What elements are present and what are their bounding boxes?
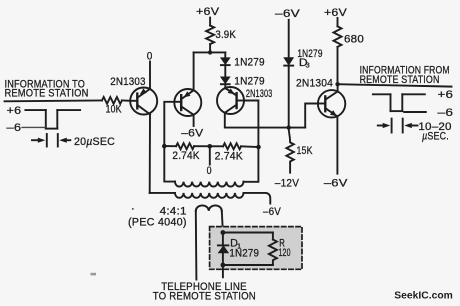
resistor 680	[334, 26, 342, 47]
diode D1 1N279	[218, 233, 229, 266]
node clamp junction dot	[287, 125, 291, 129]
svg-text:15K: 15K	[297, 145, 313, 157]
svg-text:2N1303: 2N1303	[246, 88, 273, 100]
waveform input pulse	[22, 110, 80, 129]
hybrid terminator dashed box	[210, 227, 302, 270]
wire 10K to Q1 base	[122, 99, 130, 101]
transistor Q4 2N1304	[318, 90, 345, 117]
wire winding3 right terminal	[222, 211, 223, 233]
wire Q2 emitter up	[193, 52, 195, 90]
node 0 lead above Q1	[149, 62, 151, 90]
resistor 3.9K	[206, 26, 214, 45]
stray mark near 4:4:1	[132, 208, 134, 210]
transformer winding2	[175, 193, 243, 198]
svg-text:–6V: –6V	[324, 177, 348, 189]
transformer winding3	[196, 205, 222, 210]
wire Q3 collector to clamp node	[225, 113, 305, 128]
node dot right	[256, 145, 261, 150]
wire input line left	[5, 99, 103, 102]
wire winding2 left lead	[150, 192, 175, 194]
wire emitter rail	[194, 51, 226, 53]
wire Q2 collector to -6V	[193, 115, 195, 126]
svg-text:–6V: –6V	[263, 206, 281, 218]
resistor R 120	[269, 233, 277, 265]
transformer winding1	[175, 182, 243, 187]
node dot box bottom	[221, 263, 226, 268]
wire below box	[222, 265, 224, 277]
svg-text:+6: +6	[438, 89, 454, 101]
wire node to Q4 base riser	[305, 104, 318, 128]
wire to right node	[241, 145, 258, 148]
transistor Q2	[174, 89, 201, 116]
resistor 15K	[286, 128, 293, 173]
svg-text:2.74K: 2.74K	[172, 150, 200, 162]
node junction dot 3.9K	[208, 50, 212, 54]
svg-text:0: 0	[147, 51, 153, 63]
svg-text:SeekIC.com: SeekIC.com	[394, 290, 453, 301]
wire winding3 left terminal	[195, 211, 198, 280]
power +6V lead left	[209, 18, 211, 26]
svg-text:10K: 10K	[106, 103, 122, 115]
svg-text:µSEC.: µSEC.	[422, 130, 449, 142]
svg-text:680: 680	[344, 34, 364, 46]
diode D 1N279 upper	[221, 58, 230, 77]
wire 680 to output node	[337, 47, 339, 84]
wire box bottom run	[223, 264, 273, 266]
svg-text:–6: –6	[7, 122, 22, 134]
svg-text:2N1303: 2N1303	[110, 76, 146, 88]
waveform output pulse	[373, 94, 426, 112]
svg-text:1N279: 1N279	[234, 75, 264, 87]
svg-text:–6V: –6V	[275, 8, 301, 20]
node output dot	[335, 82, 339, 86]
wire Q4 emitter down to -6V	[336, 117, 338, 174]
wire Q2 base left down	[164, 102, 174, 146]
waveform input dimension arrows	[32, 134, 70, 147]
waveform output dimension arrows	[378, 119, 418, 133]
wire rail to diodes	[224, 52, 226, 58]
power +6V lead right	[337, 18, 339, 26]
wire winding1 left drop	[164, 146, 175, 182]
node dot center tap	[208, 144, 213, 149]
svg-text:TO REMOTE STATION: TO REMOTE STATION	[153, 290, 256, 302]
wire winding2 right lead to -6V	[244, 193, 271, 204]
wire Q1 collector down	[149, 114, 151, 193]
svg-text:2N1304: 2N1304	[296, 78, 333, 90]
wire box top run	[223, 232, 273, 234]
diode D 1N279 lower	[221, 77, 230, 88]
svg-text:+6V: +6V	[196, 6, 220, 18]
wire 2.74K row	[164, 145, 176, 147]
diode D3 1N279	[284, 58, 293, 128]
svg-text:+6: +6	[7, 105, 22, 117]
node dot left	[162, 144, 167, 149]
resistor 2.74K left	[176, 143, 194, 149]
svg-text:(PEC 4040): (PEC 4040)	[128, 216, 187, 228]
svg-text:–6: –6	[438, 107, 454, 119]
svg-text:REMOTE STATION: REMOTE STATION	[5, 87, 89, 99]
node dot box top	[221, 230, 226, 235]
svg-text:2.74K: 2.74K	[215, 150, 244, 162]
wire output line	[338, 84, 452, 86]
svg-text:REMOTE STATION: REMOTE STATION	[360, 74, 440, 86]
svg-text:1N279: 1N279	[229, 248, 259, 260]
resistor R 10K	[102, 97, 122, 104]
svg-text:3: 3	[306, 61, 310, 70]
svg-text:+6V: +6V	[324, 7, 348, 19]
wire Q4 collector up	[337, 84, 339, 91]
stray mark bottom left	[91, 273, 97, 276]
svg-text:1N279: 1N279	[234, 56, 264, 68]
svg-text:20µSEC: 20µSEC	[74, 136, 115, 148]
svg-text:–12V: –12V	[275, 177, 300, 189]
power -6V lead (D3 branch)	[288, 20, 290, 58]
wire between resistors	[194, 145, 223, 147]
resistor 2.74K right	[223, 143, 241, 149]
wire 3.9K to emitter rail	[209, 44, 211, 52]
transistor Q3 2N1303	[217, 87, 244, 114]
svg-text:120: 120	[279, 247, 291, 259]
transistor Q1 2N1303	[130, 88, 157, 115]
svg-text:3.9K: 3.9K	[215, 29, 236, 41]
svg-text:–6V: –6V	[181, 127, 203, 139]
wire Q3 base right down	[244, 101, 258, 148]
svg-text:0: 0	[207, 165, 212, 177]
wire winding1 right rise	[244, 147, 259, 182]
wire center tap 0	[209, 146, 211, 164]
